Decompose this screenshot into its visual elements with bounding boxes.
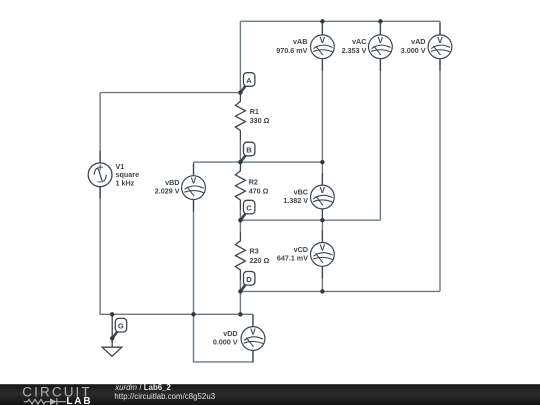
wire resistor chain column R1-B (239, 141, 241, 163)
svg-text:470 Ω: 470 Ω (249, 187, 269, 196)
wire vAC meter drop (379, 21, 381, 220)
svg-text:G: G (118, 322, 124, 331)
footer bar (0, 384, 540, 405)
svg-text:http://circuitlab.com/c8g52u3: http://circuitlab.com/c8g52u3 (114, 392, 215, 401)
voltmeter vBD (182, 164, 206, 212)
wire resistor chain column R2-C-R3 (239, 210, 241, 232)
svg-text:V: V (378, 36, 384, 45)
svg-text:LAB: LAB (66, 396, 92, 405)
svg-text:B: B (246, 146, 252, 155)
junction dot D row / vCD (320, 289, 324, 293)
wire vAB meter column (321, 21, 323, 162)
svg-text:2.029 V: 2.029 V (155, 187, 180, 196)
junction dot node D (238, 289, 242, 293)
junction dot top bus / vAC (378, 19, 382, 23)
svg-text:V: V (250, 328, 256, 337)
resistor R2 (235, 162, 245, 210)
node D (240, 272, 255, 292)
junction dot B row / vAB / vBC (320, 160, 324, 164)
label R1 330Ω (250, 107, 270, 125)
svg-text:V: V (320, 36, 326, 45)
svg-text:330 Ω: 330 Ω (250, 116, 270, 125)
voltmeter vAB (311, 23, 335, 71)
svg-text:647.1 mV: 647.1 mV (277, 253, 308, 262)
junction dot node C (238, 218, 242, 222)
wire V1 top lead (99, 93, 101, 163)
svg-text:R3: R3 (250, 247, 259, 256)
junction dot bus / ground (110, 312, 114, 316)
voltmeter vAD (428, 23, 452, 71)
wire vertical from top bus down to node A (239, 21, 241, 92)
label vDD 0.000 V (213, 329, 238, 347)
svg-text:2.353 V: 2.353 V (342, 46, 367, 55)
node B (240, 142, 255, 162)
junction dot top bus / vAB (320, 19, 324, 23)
svg-text:V: V (191, 177, 197, 186)
junction dot ground terminal G (110, 336, 114, 340)
node C (240, 200, 255, 220)
node A (240, 73, 255, 93)
label R3 220Ω (250, 247, 270, 265)
label vAC 2.353 V (342, 37, 367, 55)
svg-text:V: V (320, 243, 326, 252)
wire vBC meter column (321, 162, 323, 220)
label vAB 970.6 mV (276, 37, 307, 55)
junction dot node B (238, 160, 242, 164)
svg-text:A: A (246, 76, 252, 85)
voltmeter vBC (311, 173, 335, 221)
wire V1 bottom to ground bus (100, 187, 253, 315)
voltage source V1 (88, 151, 112, 199)
logo wire resistor diode (24, 398, 66, 405)
junction dot bus / chain (238, 312, 242, 316)
svg-text:V: V (320, 186, 326, 195)
svg-text:970.6 mV: 970.6 mV (276, 46, 307, 55)
svg-text:1 kHz: 1 kHz (116, 179, 135, 188)
svg-text:C: C (246, 204, 252, 213)
wire A row from V1 to node A (100, 92, 240, 94)
label vBD 2.029 V (155, 178, 180, 196)
svg-text:V: V (437, 36, 443, 45)
svg-text:0.000 V: 0.000 V (213, 338, 238, 347)
resistor R3 (235, 232, 245, 280)
ground (102, 314, 122, 356)
wire B row (194, 161, 323, 163)
label V1 square 1 kHz (116, 162, 140, 188)
wire top bus A-node (240, 20, 440, 22)
voltmeter vCD (311, 230, 335, 278)
label R2 470Ω (249, 178, 269, 196)
wire vAD meter drop (439, 21, 441, 291)
voltmeter vDD (241, 315, 265, 363)
voltmeter vAC (369, 23, 393, 71)
svg-text:3.000 V: 3.000 V (401, 46, 426, 55)
label vAD 3.000 V (401, 37, 426, 55)
junction dot C row / vBC / vCD (320, 218, 324, 222)
junction dot bus / vBD / vDD (191, 312, 195, 316)
resistor R1 (235, 93, 245, 141)
node G (112, 318, 127, 338)
svg-text:xurdm / Lab6_2: xurdm / Lab6_2 (114, 383, 171, 392)
svg-text:220 Ω: 220 Ω (250, 256, 270, 265)
svg-text:R2: R2 (249, 178, 258, 187)
svg-text:D: D (246, 275, 252, 284)
wire resistor chain column R3-D-bus (239, 280, 241, 314)
junction dot node A (238, 90, 242, 94)
svg-text:1.382 V: 1.382 V (283, 196, 308, 205)
wire D row (240, 290, 440, 292)
label vCD 647.1 mV (277, 245, 308, 263)
wire C row (240, 219, 380, 221)
wire vCD meter column (321, 220, 323, 291)
svg-text:R1: R1 (250, 107, 259, 116)
wire vBD meter drop (193, 162, 195, 314)
wire vDD loop (194, 314, 253, 362)
label vBC 1.382 V (283, 187, 308, 205)
